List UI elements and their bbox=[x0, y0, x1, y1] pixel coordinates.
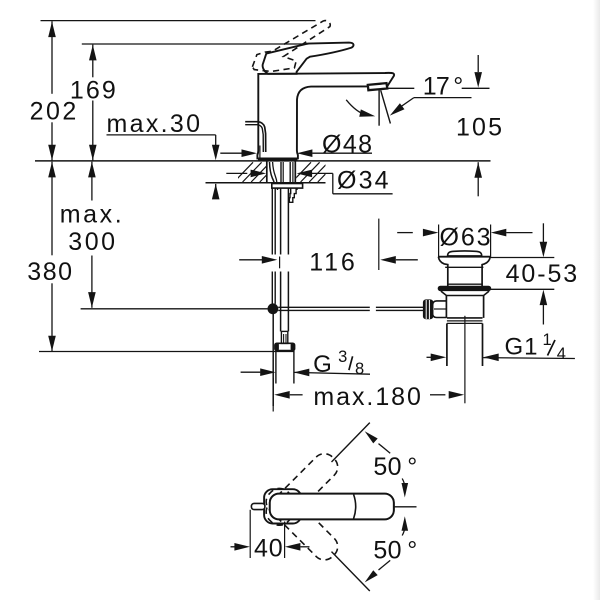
water stream 17deg tilted line bbox=[381, 90, 391, 123]
svg-text:105: 105 bbox=[456, 114, 502, 142]
max.30 lower arrow below deck bbox=[215, 197, 217, 198]
pop-up rod vertical through ball bbox=[272, 314, 274, 406]
handle centerline right bbox=[394, 506, 417, 508]
dim line 202 vertical bbox=[51, 21, 53, 94]
svg-text:50 °: 50 ° bbox=[373, 453, 418, 481]
svg-text:Ø34: Ø34 bbox=[337, 166, 389, 194]
dim 202 top reference line bbox=[41, 20, 316, 22]
svg-text:1: 1 bbox=[543, 331, 552, 349]
svg-text:Ø63: Ø63 bbox=[440, 224, 491, 252]
drain body bottom joint band bbox=[447, 317, 483, 319]
pop-up vertical rod below nut bbox=[271, 188, 273, 254]
hose G3/8 union nut bbox=[275, 343, 295, 350]
lower 50deg leader arrow to handle bbox=[402, 516, 409, 531]
upper 50deg swing axis line bbox=[332, 423, 370, 462]
pop-up horizontal rod to drain bbox=[278, 306, 370, 308]
max.30 leader underline bbox=[107, 134, 216, 136]
17deg leader line with arrow to stream bbox=[414, 97, 472, 99]
drain rubber gasket ring black bbox=[438, 286, 492, 291]
faucet body outline with spout bbox=[257, 73, 394, 159]
dim line 169 vertical bbox=[92, 45, 94, 78]
G 3/8 dimension arrows at hose stud bbox=[241, 371, 261, 373]
svg-text:8: 8 bbox=[355, 360, 364, 378]
dim diameter 63 extension lines bbox=[438, 225, 440, 258]
drain knurled knob black bbox=[423, 299, 433, 319]
svg-text:169: 169 bbox=[70, 76, 116, 104]
dim 48 left extension tick bbox=[259, 146, 261, 159]
svg-text:4: 4 bbox=[557, 345, 566, 363]
handle bar joint line bbox=[354, 495, 356, 519]
svg-text:max.180: max.180 bbox=[313, 383, 421, 411]
faucet lever raised position dashed outline bbox=[252, 21, 330, 72]
flexible supply hose below nut bbox=[280, 188, 282, 254]
drain body under gasket bbox=[441, 291, 489, 295]
redraw solid handle over dashed bbox=[270, 494, 394, 520]
G1 1/4 dimension arrows at tailpipe bbox=[427, 356, 432, 358]
dim line 105 vertical bbox=[477, 55, 479, 72]
pop-up rod ball joint bbox=[268, 303, 279, 314]
max.30 leader drop line bbox=[215, 135, 217, 147]
page right edge shading bbox=[593, 0, 600, 600]
flexible hose curve inside shank bbox=[270, 162, 275, 183]
faucet spout aerator bbox=[368, 83, 388, 90]
upper 50deg leader arrow to axis bbox=[365, 431, 378, 443]
svg-text:17 °: 17 ° bbox=[423, 73, 465, 101]
dim line max.300 vertical bbox=[91, 162, 93, 201]
countertop bottom surface line bbox=[206, 182, 326, 184]
lower 50deg leader arrow to axis bbox=[379, 560, 391, 570]
drain plug cap lens bbox=[448, 251, 482, 256]
dim 169 top reference line bbox=[82, 43, 309, 45]
svg-text:300: 300 bbox=[68, 228, 115, 256]
drain flange top edge bbox=[438, 256, 490, 258]
handle top view lever bar bbox=[270, 494, 394, 520]
40-53 lower reference line bbox=[490, 288, 554, 290]
spout outlet reference line at aerator level bbox=[387, 87, 414, 89]
dim line 380 vertical bbox=[51, 162, 53, 256]
G 3/8 leader underline bbox=[294, 372, 370, 374]
G1 1/4 leader underline bbox=[483, 357, 575, 360]
faucet base dark plate bbox=[258, 158, 298, 161]
upper 50deg leader arrow to handle bbox=[402, 479, 404, 487]
dim 40 extension lines bottom view bbox=[249, 510, 251, 558]
dashed handle rotated up 50deg bbox=[261, 449, 342, 530]
svg-text:50 °: 50 ° bbox=[373, 536, 418, 564]
drain lever boss bbox=[433, 301, 447, 318]
threaded shank through deck bbox=[266, 162, 268, 184]
svg-text:G: G bbox=[313, 351, 332, 378]
countertop hatching left of faucet hole bbox=[234, 162, 253, 182]
svg-text:Ø48: Ø48 bbox=[322, 130, 372, 158]
dim line 116 bbox=[239, 259, 262, 261]
svg-text:40: 40 bbox=[254, 534, 283, 562]
faucet solid lever handle bbox=[263, 43, 354, 74]
water stream vertical reference line bbox=[378, 90, 380, 126]
svg-text:40-53: 40-53 bbox=[506, 260, 578, 288]
mounting nut below deck bbox=[272, 184, 303, 189]
drain neck lower joint line bbox=[448, 283, 482, 285]
hose end connector piece bbox=[281, 331, 287, 343]
handle knob tip bbox=[251, 503, 265, 509]
dim line 40-53 vertical bbox=[542, 223, 544, 242]
pop-up rod knob behind lever bbox=[245, 122, 266, 152]
svg-text:380: 380 bbox=[27, 258, 72, 286]
17deg arc arrow to vertical line bbox=[346, 100, 366, 115]
hose lines inside shank bbox=[280, 162, 282, 183]
dim line max.180 bbox=[274, 391, 290, 399]
countertop top surface line bbox=[35, 160, 491, 162]
max.300 bottom reference line / pop-up rod leader bbox=[81, 308, 268, 310]
svg-text:116: 116 bbox=[309, 249, 355, 277]
handle top view body cap bbox=[264, 489, 301, 523]
dim 380 bottom reference line bbox=[39, 351, 294, 353]
max.180 left extension line bbox=[272, 378, 274, 412]
dim line diameter 34 bbox=[226, 172, 247, 174]
dim line diameter 48 bbox=[220, 152, 242, 154]
dim arrows diameter 63 bbox=[397, 232, 413, 234]
drain flange skirt sides bbox=[438, 257, 447, 286]
hose G3/8 threaded stud bbox=[275, 351, 277, 384]
dim line 40 bbox=[231, 546, 235, 548]
116 right arrow and extension line bbox=[380, 256, 396, 264]
116 left extension tick bbox=[279, 257, 281, 269]
diameter 34 leader step bbox=[332, 173, 334, 193]
lower 50deg swing axis line bbox=[332, 552, 370, 591]
pop-up rod guide bracket steps bbox=[289, 188, 296, 202]
svg-text:3: 3 bbox=[338, 348, 347, 366]
drain neck joint line bbox=[445, 266, 483, 268]
svg-text:max.30: max.30 bbox=[107, 110, 201, 138]
drain centerline extension for max.180 bbox=[464, 316, 466, 404]
countertop hatching right of faucet hole bbox=[292, 162, 311, 182]
drain tailpipe G1 1/4 bbox=[446, 323, 448, 366]
svg-text:G1: G1 bbox=[505, 333, 539, 360]
40-53 upper reference line bbox=[490, 257, 554, 259]
dashed handle rotated down 50deg bbox=[261, 484, 342, 565]
